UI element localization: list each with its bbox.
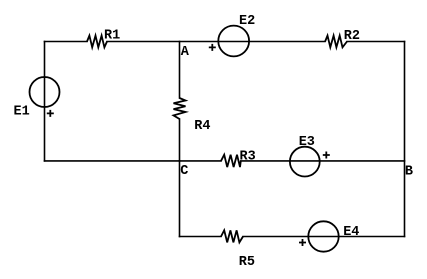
source E2 circle xyxy=(218,26,249,57)
svg-text:R1: R1 xyxy=(104,29,120,44)
wire vertical A to R4 xyxy=(179,42,181,99)
svg-text:R4: R4 xyxy=(194,119,210,134)
svg-text:R5: R5 xyxy=(239,255,255,270)
source E3 circle xyxy=(290,147,320,177)
source E1 circle xyxy=(30,77,60,107)
svg-text:E2: E2 xyxy=(239,14,255,29)
plus of E3 xyxy=(323,152,330,159)
plus of E2 xyxy=(209,44,216,51)
wire top-middle (R1 to R2, through node A and E2) xyxy=(107,41,325,43)
wire vertical C down to bottom loop xyxy=(179,161,181,237)
svg-text:R3: R3 xyxy=(240,149,256,164)
wire middle-left (bottom of E1 loop to R3, through node C) xyxy=(45,160,222,162)
wire bottom-left (corner to R5) xyxy=(180,236,222,238)
wire right vertical (B column) xyxy=(404,42,406,237)
svg-text:E1: E1 xyxy=(14,105,30,120)
svg-text:E4: E4 xyxy=(343,225,359,240)
svg-text:A: A xyxy=(181,45,190,60)
svg-text:C: C xyxy=(180,164,188,179)
resistor R5 xyxy=(221,230,243,242)
resistor R1 xyxy=(87,36,107,48)
wire left vertical (through E1) xyxy=(44,42,46,161)
resistor R4 (vertical) xyxy=(174,98,186,119)
wire top-right (R2 to right corner) xyxy=(347,41,405,43)
resistor R2 xyxy=(325,36,347,48)
svg-text:R2: R2 xyxy=(344,29,360,44)
wire top-left (E1 top to R1) xyxy=(45,41,88,43)
wire middle-right (R3 to node B, through E3) xyxy=(241,160,405,162)
wire bottom-right (R5 to right corner, through E4) xyxy=(243,236,405,238)
wire vertical R4 to C xyxy=(179,119,181,161)
resistor R3 xyxy=(221,155,241,167)
plus of E4 xyxy=(299,239,306,246)
source E4 circle xyxy=(308,221,338,251)
svg-text:B: B xyxy=(405,164,413,179)
svg-text:E3: E3 xyxy=(299,135,315,150)
plus of E1 xyxy=(47,110,54,117)
